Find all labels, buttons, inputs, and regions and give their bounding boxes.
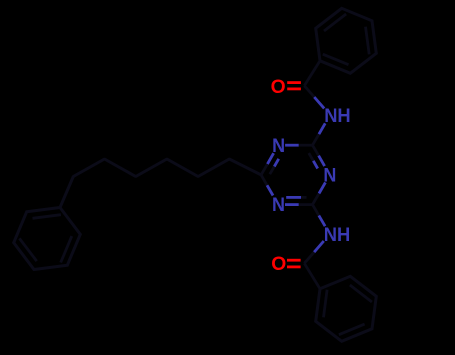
svg-text:O: O: [271, 253, 286, 275]
svg-text:N: N: [323, 164, 336, 186]
left ring (cyclohexyl/phenyl): [14, 208, 81, 270]
alkyl chain C6 to left ring: [60, 159, 261, 208]
triazine ring: [261, 145, 325, 204]
svg-text:NH: NH: [324, 224, 351, 246]
svg-text:N: N: [272, 135, 285, 157]
bond carbonyl-phenyl bottom: [304, 263, 320, 289]
amide bond C4-NH bottom: [313, 205, 326, 227]
phenyl ring top (benzoyl): [304, 8, 376, 85]
amide bond C2-NH top: [313, 123, 326, 145]
svg-text:O: O: [271, 76, 286, 98]
svg-text:N: N: [272, 194, 285, 216]
svg-text:NH: NH: [324, 105, 351, 127]
amide bond NH-C(=O) top: [304, 86, 324, 109]
phenyl ring bottom (benzoyl): [304, 263, 376, 341]
bond carbonyl-phenyl top: [304, 61, 320, 86]
carbonyl C=O bottom (red double bond): [287, 260, 301, 267]
carbonyl C=O top (red double bond): [287, 83, 301, 89]
amide bond NH-C(=O) bottom: [304, 241, 324, 263]
